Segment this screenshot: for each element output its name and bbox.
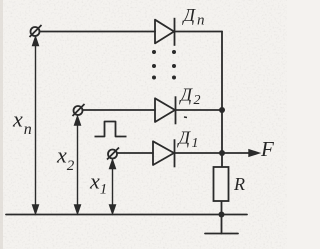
svg-text:R: R <box>233 174 245 194</box>
svg-text:F: F <box>260 137 274 161</box>
